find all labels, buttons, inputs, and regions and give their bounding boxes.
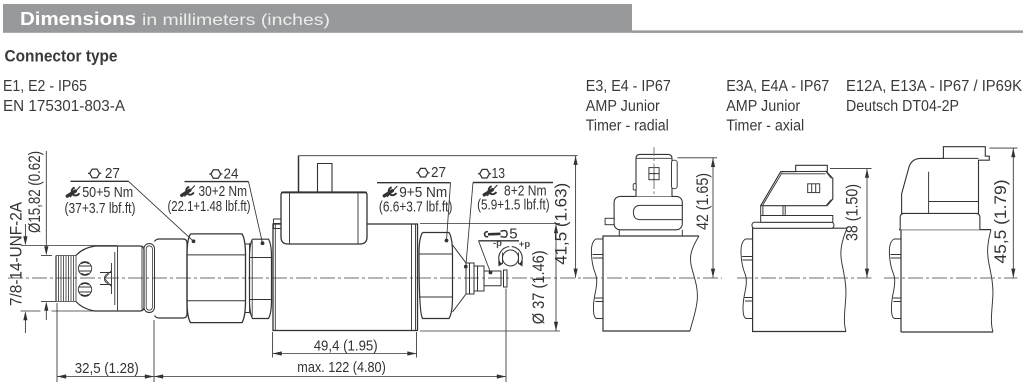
svg-text:(22.1+1.48 lbf.ft): (22.1+1.48 lbf.ft): [168, 198, 251, 215]
svg-text:Timer - radial: Timer - radial: [586, 118, 669, 135]
view2 base plate lower: [752, 222, 834, 228]
cartridge body outline: [76, 246, 144, 311]
cable gland tab: [274, 219, 282, 229]
dim line 7/8: [24, 224, 26, 333]
nut 24 inner edge line: [251, 241, 253, 317]
adjuster hub: [466, 263, 474, 294]
dim line 41.5: [575, 156, 577, 278]
view2 nut profile: [741, 239, 753, 319]
cartridge nose face: [55, 256, 57, 302]
o-ring capsule outer: [144, 244, 155, 313]
view1 connector tongue groove: [633, 205, 682, 219]
svg-text:Deutsch DT04-2P: Deutsch DT04-2P: [846, 98, 959, 115]
view3 centerline: [884, 277, 1018, 279]
solenoid body: [273, 224, 418, 331]
view1 tower side tab: [672, 160, 678, 189]
view1 tower left bump: [633, 184, 636, 190]
dim line 49.4: [273, 353, 417, 355]
svg-text:32,5 (1.28): 32,5 (1.28): [75, 360, 139, 377]
view3 body: [899, 230, 993, 332]
hex 27 outline: [187, 234, 246, 323]
view1 body break line: [690, 236, 699, 331]
view1 tower window: [649, 168, 659, 180]
main centerline: [8, 277, 586, 279]
hex icon C: [416, 168, 429, 177]
bottom ext x57: [56, 303, 58, 382]
svg-text:max. 122 (4.80): max. 122 (4.80): [297, 359, 386, 376]
svg-text:E3A, E4A - IP67: E3A, E4A - IP67: [726, 78, 829, 95]
thread lines: [56, 256, 76, 302]
svg-text:7/8-14-UNF-2A: 7/8-14-UNF-2A: [8, 202, 26, 306]
bottom ext x506: [505, 289, 507, 383]
view3 connector main: [902, 147, 990, 214]
leader C underline: [377, 182, 451, 184]
view2 wedge window: [808, 184, 820, 193]
view1 connector foot: [614, 196, 682, 229]
view3 collar: [900, 213, 980, 229]
svg-text:E3, E4 - IP67: E3, E4 - IP67: [586, 78, 671, 95]
svg-text:27: 27: [105, 165, 120, 182]
dim line d37: [555, 224, 557, 331]
view2 centerline: [737, 277, 872, 279]
svg-text:-p: -p: [493, 238, 502, 249]
svg-text:Dimensions: Dimensions: [20, 9, 136, 29]
svg-text:Ø15,82 (0.62): Ø15,82 (0.62): [26, 151, 44, 233]
svg-text:(6.6+3.7 lbf.ft): (6.6+3.7 lbf.ft): [379, 199, 453, 216]
svg-text:Timer - axial: Timer - axial: [726, 118, 804, 135]
view3 ext line 45.5: [989, 147, 1017, 149]
hex icon A: [88, 169, 101, 178]
view1 centerline: [583, 277, 722, 279]
extension line y255.5 short: [41, 255, 52, 257]
view2 ext line 38: [830, 168, 872, 170]
hex 27 flats: [187, 255, 246, 301]
svg-text:42 (1.65): 42 (1.65): [694, 173, 712, 230]
svg-text:AMP Junior: AMP Junior: [726, 98, 800, 115]
wrench icon C: [384, 186, 397, 197]
solenoid right inner lines: [412, 224, 416, 331]
leader 5 underline: [479, 240, 520, 242]
view3 body break line: [988, 230, 993, 332]
view2 base plate upper: [761, 216, 833, 223]
leader A: [129, 181, 194, 241]
svg-text:Ø 37 (1.46): Ø 37 (1.46): [530, 250, 548, 324]
view1 body: [603, 236, 699, 331]
header bar: [3, 4, 632, 33]
view3 nut profile: [889, 239, 901, 319]
view2 body break line: [841, 228, 847, 331]
dim line d15.82: [45, 151, 47, 320]
connector left rib: [298, 156, 300, 192]
solenoid left inner line: [274, 224, 276, 331]
extension line y311: [21, 310, 115, 312]
o-ring capsule inner: [146, 246, 152, 310]
view1 ext line 42: [678, 157, 718, 159]
leader 5: [479, 241, 491, 273]
svg-text:13: 13: [492, 165, 506, 182]
bottom ext x272.6: [272, 332, 274, 358]
leader D underline: [473, 182, 553, 184]
view3 inner divider: [929, 172, 979, 214]
poppet cone: [105, 271, 112, 287]
wrench icon B: [182, 186, 195, 197]
svg-text:27: 27: [431, 164, 446, 181]
DIN connector body: [281, 192, 367, 244]
leader A underline: [71, 180, 129, 182]
shoulder chamfer lines: [118, 246, 143, 311]
view2 wedge: [761, 165, 833, 205]
leader B underline: [185, 181, 249, 183]
svg-text:49,4 (1.95): 49,4 (1.95): [314, 338, 378, 355]
svg-text:in millimeters (inches): in millimeters (inches): [142, 12, 330, 29]
poppet seat lines: [100, 273, 112, 285]
nut 24 flats: [250, 258, 272, 300]
svg-text:41,5 (1.63): 41,5 (1.63): [553, 183, 571, 265]
svg-text:5: 5: [509, 226, 517, 243]
view1 dim 42: [712, 158, 714, 278]
cross hole top: [78, 262, 91, 275]
view1 left tab: [605, 218, 614, 224]
knob arrow arcs: [499, 247, 522, 263]
DIN connector top pin: [318, 164, 333, 193]
bottom ext x416.5: [416, 332, 418, 358]
leader C: [447, 183, 451, 241]
svg-text:(5.9+1.5 lbf.ft): (5.9+1.5 lbf.ft): [477, 196, 550, 213]
view2 body: [753, 228, 847, 331]
adjuster hex flats: [419, 254, 453, 297]
nut 24 outline: [250, 239, 272, 318]
view2 support ribs: [761, 206, 786, 216]
extension line y245.5: [21, 245, 117, 247]
view1 tower centerline: [653, 147, 655, 196]
view2 wedge inner lines: [763, 173, 832, 206]
shaft end cap: [504, 270, 508, 287]
leader D: [466, 183, 473, 267]
flat wrench icon 5: [485, 231, 508, 237]
knob side flats: [503, 253, 519, 265]
adjuster hex outline: [419, 233, 453, 319]
top extension line 41.5: [299, 155, 578, 157]
adjuster cone: [453, 245, 467, 312]
svg-text:EN 175301-803-A: EN 175301-803-A: [3, 98, 126, 115]
wrench icon A: [67, 186, 80, 197]
right ext lines d37: [420, 224, 560, 332]
flange cylinder: [155, 239, 188, 318]
svg-text:E12A, E13A - IP67 / IP69K: E12A, E13A - IP67 / IP69K: [846, 78, 1023, 95]
view2 wedge top edge: [781, 170, 826, 172]
DIN connector face lines: [290, 193, 359, 244]
cross hole bottom: [78, 283, 91, 296]
wrench icon D: [484, 185, 497, 196]
view3 plug bottom line: [943, 157, 978, 159]
svg-text:45,5 (1.79): 45,5 (1.79): [992, 180, 1010, 264]
dim line 32.5 / max122: [57, 376, 506, 378]
knob circle: [503, 250, 519, 266]
svg-text:+p: +p: [519, 239, 531, 250]
svg-text:AMP Junior: AMP Junior: [586, 98, 660, 115]
header rule: [632, 30, 1023, 33]
svg-text:38 (1.50): 38 (1.50): [844, 184, 862, 241]
shaft groove: [501, 272, 504, 285]
svg-text:E1, E2 - IP65: E1, E2 - IP65: [3, 78, 87, 95]
hex icon D: [478, 169, 491, 178]
view3 dim 45.5: [1012, 148, 1014, 278]
bottom ext x154: [153, 320, 155, 382]
view1 connector tower: [636, 154, 672, 196]
hex icon B: [209, 170, 222, 179]
internal step lines: [112, 252, 115, 305]
view1 nut profile: [591, 239, 603, 319]
view2 dim 38: [866, 169, 868, 278]
adjuster collar: [474, 266, 484, 291]
svg-text:50+5 Nm: 50+5 Nm: [82, 184, 133, 201]
extension line y301.5 short: [41, 301, 56, 303]
view1 connector neck: [619, 230, 682, 237]
leader B: [249, 182, 263, 244]
svg-text:Connector type: Connector type: [5, 48, 118, 66]
poppet ball arc: [104, 274, 108, 284]
adjuster shaft: [484, 271, 501, 286]
svg-text:24: 24: [224, 166, 239, 183]
step ring after hex: [246, 243, 250, 314]
svg-text:(37+3.7 lbf.ft): (37+3.7 lbf.ft): [65, 200, 136, 217]
